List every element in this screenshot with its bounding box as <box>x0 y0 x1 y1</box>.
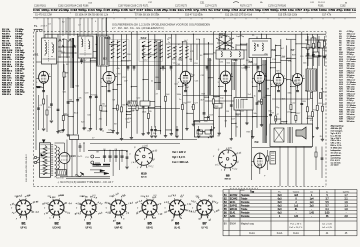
svg-text:S3 100k S4 39k S5 680 S6 1,2k: S3 100k S4 39k S5 680 S6 1,2k <box>75 15 109 17</box>
svg-text:EL41: EL41 <box>230 212 236 214</box>
svg-text:S15 33k S16 120k: S15 33k S16 120k <box>278 15 298 17</box>
svg-text:EF41: EF41 <box>230 202 236 204</box>
svg-text:UF 41: UF 41 <box>86 227 93 229</box>
svg-text:I tot = 300 mA: I tot = 300 mA <box>172 160 188 164</box>
svg-text:UL 41: UL 41 <box>174 227 181 229</box>
svg-text:Vgl = 6,3 V.: Vgl = 6,3 V. <box>172 155 186 159</box>
svg-text:UF 41: UF 41 <box>21 227 28 229</box>
svg-text:330k: 330k <box>177 94 181 96</box>
svg-text:2n: 2n <box>151 81 153 83</box>
svg-text:B3: B3 <box>87 222 91 226</box>
svg-text:56k: 56k <box>122 105 125 107</box>
svg-text:TL: TL <box>34 24 38 28</box>
svg-text:EM34: EM34 <box>230 223 237 225</box>
svg-text:B4: B4 <box>116 222 120 226</box>
svg-text:47n: 47n <box>99 119 102 121</box>
svg-text:B3: B3 <box>179 57 183 61</box>
svg-text:56k: 56k <box>253 113 256 115</box>
svg-text:Fu1A: Fu1A <box>249 232 255 235</box>
svg-text:g1 -1,4: g1 -1,4 <box>32 210 40 213</box>
svg-text:1,45: 1,45 <box>309 212 314 214</box>
svg-text:B4: B4 <box>234 58 238 62</box>
svg-text:4 5 6 7: 4 5 6 7 <box>41 25 48 27</box>
svg-text:Triode: Triode <box>241 197 248 200</box>
svg-text:UB 41: UB 41 <box>147 227 154 229</box>
svg-text:C160 R161: C160 R161 <box>34 6 46 8</box>
svg-text:Ia1 = 0,05: Ia1 = 0,05 <box>322 223 333 225</box>
svg-text:B6: B6 <box>175 222 179 226</box>
svg-text:39 kohm: 39 kohm <box>347 121 355 123</box>
svg-text:S7 56k S8 10k S9 330k: S7 56k S8 10k S9 330k <box>135 15 160 17</box>
svg-text:C178 C179 R180: C178 C179 R180 <box>268 6 287 8</box>
svg-text:PU: PU <box>86 157 89 159</box>
svg-text:Typ: Typ <box>250 190 255 193</box>
svg-text:47n: 47n <box>274 83 277 85</box>
svg-text:Magisch oog: Magisch oog <box>241 223 255 225</box>
svg-text:EAF42: EAF42 <box>230 204 238 207</box>
svg-text:Triode: Triode <box>241 208 248 211</box>
svg-text:B6: B6 <box>272 48 276 52</box>
svg-text:C51: C51 <box>200 1 205 4</box>
svg-text:1k: 1k <box>236 127 238 129</box>
svg-text:Pentode: Pentode <box>241 204 250 207</box>
svg-text:B10: B10 <box>141 171 147 175</box>
svg-text:2n: 2n <box>94 58 96 60</box>
svg-text:ECH42: ECH42 <box>230 198 238 200</box>
svg-text:UCH 42: UCH 42 <box>53 227 62 229</box>
svg-text:EBC41: EBC41 <box>230 209 238 211</box>
svg-text:B5: B5 <box>148 222 152 226</box>
svg-text:⏚ 6Ω C79 (±1,5) GRAMO TYPE 8: ⏚ 6Ω C79 (±1,5) GRAMO TYPE 8046 I - CO. … <box>57 180 114 184</box>
svg-text:Fu1 = 36 V.: Fu1 = 36 V. <box>290 223 302 225</box>
svg-text:Vst = 220 V.: Vst = 220 V. <box>172 150 186 154</box>
svg-text:5,00: 5,00 <box>325 212 330 214</box>
svg-text:2n: 2n <box>179 99 181 101</box>
svg-text:R181: R181 <box>318 6 324 8</box>
svg-text:22k: 22k <box>78 97 81 99</box>
svg-text:2xC1: 2xC1 <box>78 156 84 158</box>
svg-text:S17 4,7k: S17 4,7k <box>322 15 332 17</box>
svg-text:B2: B2 <box>55 222 59 226</box>
svg-text:B10: B10 <box>71 154 77 158</box>
svg-text:R176 C177: R176 C177 <box>240 6 252 8</box>
svg-text:R41 150: R41 150 <box>56 177 64 179</box>
svg-text:47n: 47n <box>116 68 119 70</box>
svg-text:C172 R173: C172 R173 <box>175 6 187 8</box>
svg-text:ECH42: ECH42 <box>230 195 238 197</box>
svg-text:Heptode: Heptode <box>241 194 250 197</box>
svg-text:EM 34: EM 34 <box>225 179 232 181</box>
svg-text:2,7 - FM - AM - KG - GG. (AFG: 2,7 - FM - AM - KG - GG. (AFGELEZEN P.O.… <box>112 26 164 30</box>
svg-text:GOLFBEREIKEN (SK 1,2,3) EN SPO: GOLFBEREIKEN (SK 1,2,3) EN SPOELENSCHEMA… <box>112 22 210 26</box>
svg-text:C167 R168 C169 C170 R171: C167 R168 C169 C170 R171 <box>118 6 149 8</box>
svg-text:B2: B2 <box>103 56 107 60</box>
svg-text:Fu2 = 20,1 V.: Fu2 = 20,1 V. <box>290 227 303 229</box>
svg-text:SK2: SK2 <box>141 36 147 40</box>
svg-text:1k: 1k <box>253 95 255 97</box>
svg-text:220k: 220k <box>127 102 131 104</box>
svg-text:SK3: SK3 <box>105 36 111 40</box>
svg-text:B7: B7 <box>291 48 295 52</box>
svg-text:a 215: a 215 <box>226 148 233 150</box>
svg-text:47n: 47n <box>310 120 313 122</box>
svg-text:AZ 41: AZ 41 <box>141 175 147 178</box>
svg-text:S12 15k S13 270 S14 1k8: S12 15k S13 270 S14 1k8 <box>225 15 253 17</box>
svg-text:Ia2 = 0,25: Ia2 = 0,25 <box>322 227 333 229</box>
svg-text:B9: B9 <box>255 140 259 144</box>
svg-text:E: E <box>257 43 259 47</box>
svg-text:1k: 1k <box>243 64 245 66</box>
svg-text:1k: 1k <box>102 131 104 133</box>
svg-text:S1 470 S2 2,2M: S1 470 S2 2,2M <box>35 15 52 17</box>
svg-text:AZ41: AZ41 <box>230 215 236 218</box>
svg-text:B8: B8 <box>226 174 230 178</box>
svg-text:a 215: a 215 <box>142 145 149 147</box>
svg-text:Fu1A: Fu1A <box>293 232 299 235</box>
svg-text:S10 47 S11 820k: S10 47 S11 820k <box>185 15 204 17</box>
svg-text:B1: B1 <box>22 222 26 226</box>
svg-text:1n: 1n <box>236 36 238 38</box>
svg-text:Fu1A: Fu1A <box>277 232 283 235</box>
svg-text:UAF 42: UAF 42 <box>115 226 124 229</box>
svg-text:23-1-51: 23-1-51 <box>318 2 326 4</box>
svg-text:zie tabel: zie tabel <box>331 164 339 167</box>
svg-text:B5: B5 <box>249 60 253 64</box>
svg-text:Pentode: Pentode <box>241 201 250 204</box>
svg-text:C162 C163 R164 C165 R166: C162 C163 R164 C165 R166 <box>58 6 89 8</box>
svg-text:1M: 1M <box>226 111 229 113</box>
svg-text:Vg1(±): Vg1(±) <box>293 191 300 193</box>
svg-text:C41 100p C42 2x40p C43 500p C4: C41 100p C42 2x40p C43 500p C44 50p C45 … <box>33 9 357 12</box>
svg-text:B1: B1 <box>35 52 39 56</box>
svg-text:R29 27 k: R29 27 k <box>2 94 12 96</box>
svg-text:Pentode: Pentode <box>241 215 250 218</box>
svg-text:110-125-145-200-220-245 V: 110-125-145-200-220-245 V <box>26 154 28 182</box>
svg-text:C182: C182 <box>340 6 346 8</box>
svg-text:UY 41: UY 41 <box>202 227 209 229</box>
svg-text:Ig2(%): Ig2(%) <box>343 191 350 193</box>
svg-text:C29 5n: C29 5n <box>15 94 23 96</box>
svg-text:C174 C175: C174 C175 <box>205 6 217 8</box>
svg-text:2n: 2n <box>191 107 193 109</box>
svg-text:Pentode: Pentode <box>241 211 250 214</box>
svg-text:B7: B7 <box>203 222 207 226</box>
svg-text:SK1: SK1 <box>219 33 225 37</box>
svg-text:220k: 220k <box>142 112 146 114</box>
svg-text:g3 5,2: g3 5,2 <box>75 213 82 215</box>
svg-text:k 2,1: k 2,1 <box>191 211 197 213</box>
